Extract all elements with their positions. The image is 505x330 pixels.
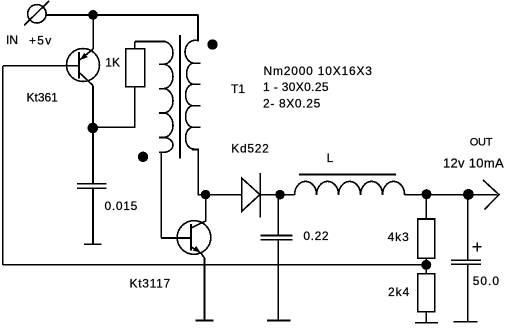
- node secondary/collector junction: [202, 191, 210, 199]
- svg-text:Kt3117: Kt3117: [130, 277, 171, 291]
- wire R2 top lead: [425, 195, 427, 219]
- capacitor C3 plus sign: [473, 242, 482, 251]
- wire diode cathode to node: [260, 194, 294, 196]
- capacitor C2 bottom lead with end bar: [267, 240, 291, 320]
- wire primary bottom lead: [160, 152, 162, 238]
- transformer phase dot primary: [139, 152, 148, 161]
- node diode output junction: [276, 191, 284, 199]
- inductor L winding: [295, 181, 405, 194]
- wire R3 bottom lead with end bar: [415, 312, 438, 323]
- svg-text:50.0: 50.0: [473, 274, 500, 288]
- svg-text:12v 10mA: 12v 10mA: [443, 155, 504, 170]
- node collector junction: [88, 124, 97, 133]
- svg-text:2k4: 2k4: [388, 285, 410, 299]
- transformer T1 core: [179, 35, 181, 159]
- wire R1 top lead: [134, 42, 136, 49]
- wire base lead of Q1: [3, 65, 79, 67]
- capacitor C2 0.22 top lead: [277, 195, 279, 235]
- svg-text:4k3: 4k3: [388, 230, 410, 244]
- capacitor C2 0.22 plates: [260, 236, 292, 240]
- capacitor C3 50.0 plates: [451, 260, 481, 264]
- transformer T1 primary winding: [135, 42, 173, 153]
- svg-text:OUT: OUT: [470, 137, 493, 149]
- node L/R2 junction: [422, 190, 430, 198]
- node C3/output junction: [464, 190, 473, 199]
- wire emitter of Q2 down with end bar: [196, 258, 214, 321]
- wire collector vertical of Q2: [191, 195, 205, 228]
- svg-text:1 - 30X0.25: 1 - 30X0.25: [263, 80, 329, 94]
- resistor R2 4k3: [418, 219, 435, 258]
- wire feedback left vertical: [2, 66, 4, 265]
- capacitor C1 0.015 plates: [77, 184, 107, 189]
- svg-text:2- 8X0.25: 2- 8X0.25: [263, 97, 321, 111]
- wire emitter vertical of Q1: [92, 15, 94, 49]
- svg-text:IN: IN: [6, 33, 18, 47]
- inductor L core bar: [299, 174, 396, 176]
- capacitor C1 bottom lead with end bar: [84, 189, 102, 244]
- transformer T1 secondary winding: [185, 14, 198, 194]
- wire inductor to output: [405, 194, 497, 196]
- svg-text:T1: T1: [231, 82, 245, 96]
- wire top rail from terminal to transformer secondary: [46, 14, 198, 16]
- wire R3 top lead: [425, 265, 427, 274]
- terminal IN (circle with slash): [24, 1, 49, 25]
- transformer T1 secondary stubs: [193, 63, 201, 127]
- node input junction: [89, 11, 97, 19]
- diode D1 Kd522: [242, 173, 261, 217]
- wire base lead of Q2: [161, 237, 191, 239]
- transistor Q2 Kt3117 (NPN): [177, 221, 211, 258]
- wire secondary bottom to node: [198, 194, 242, 196]
- resistor R3 2k4: [418, 274, 435, 312]
- capacitor C3 50.0 top lead: [467, 195, 469, 260]
- wire R1 top to primary winding: [135, 41, 166, 43]
- svg-text:Kd522: Kd522: [231, 142, 269, 156]
- transformer phase dot secondary: [208, 40, 217, 49]
- wire collector vertical of Q1: [92, 86, 94, 129]
- transformer T1 primary stubs: [159, 64, 163, 152]
- transistor Q1 Kt361 (PNP): [67, 49, 100, 86]
- svg-text:0.22: 0.22: [303, 229, 329, 243]
- svg-text:L: L: [327, 151, 334, 165]
- resistor R1 1K: [126, 49, 145, 87]
- svg-text:0.015: 0.015: [105, 199, 139, 213]
- terminal OUT arrow: [483, 180, 499, 210]
- capacitor C1 0.015 top lead: [92, 128, 94, 183]
- node R2/R3 junction: [422, 261, 430, 269]
- wire collector junction to R1 bottom: [93, 87, 135, 128]
- svg-text:+5v: +5v: [29, 34, 53, 48]
- svg-text:Nm2000 10X16X3: Nm2000 10X16X3: [264, 64, 373, 78]
- wire R2 bottom lead: [425, 258, 427, 265]
- svg-text:Kt361: Kt361: [27, 90, 59, 104]
- wire bottom rail: [3, 264, 427, 266]
- svg-text:1K: 1K: [105, 56, 120, 70]
- capacitor C3 bottom lead with end bar: [453, 265, 477, 322]
